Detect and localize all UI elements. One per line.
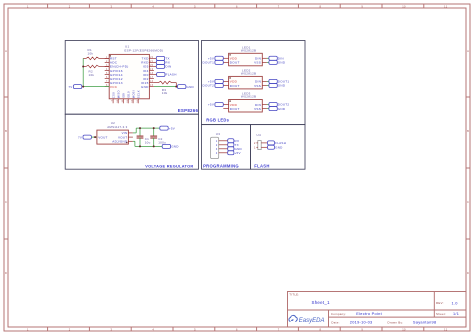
junction C2 bottom	[153, 145, 155, 147]
LED3 pin DIN	[255, 103, 267, 107]
svg-text:DIN: DIN	[255, 103, 261, 107]
svg-text:GND: GND	[278, 61, 286, 65]
svg-text:+5V: +5V	[208, 103, 214, 107]
resistor R1	[83, 57, 109, 60]
svg-text:VDD: VDD	[230, 103, 238, 107]
svg-text:21: 21	[150, 61, 154, 63]
section box FLASH	[251, 125, 306, 170]
title block label Sheet:	[436, 312, 446, 316]
svg-text:U1: U1	[125, 44, 129, 48]
svg-text:4: 4	[152, 4, 154, 8]
svg-text:100u: 100u	[158, 140, 166, 144]
section label PROGRAMMING	[203, 164, 239, 169]
svg-text:IO2: IO2	[143, 77, 149, 81]
svg-text:5: 5	[194, 4, 196, 8]
svg-text:10k: 10k	[162, 91, 168, 95]
net flag GND (header)	[268, 145, 284, 149]
svg-text:RXD: RXD	[141, 61, 149, 65]
svg-text:DIN: DIN	[255, 80, 261, 84]
svg-text:7: 7	[278, 327, 280, 331]
svg-text:VOUT: VOUT	[98, 135, 107, 139]
U2 pin VIN	[122, 131, 133, 135]
junction 7V-VOUT	[94, 136, 96, 138]
LED2 pin VSS	[254, 84, 267, 88]
svg-text:IO5: IO5	[143, 65, 149, 69]
net flag +5V (LED1)	[208, 56, 223, 60]
svg-text:1/1: 1/1	[453, 312, 459, 316]
svg-text:WS2812B: WS2812B	[241, 95, 256, 99]
svg-text:U3: U3	[216, 132, 220, 136]
svg-text:DIN: DIN	[255, 57, 261, 61]
svg-text:1: 1	[27, 327, 29, 331]
EasyEDA logo	[289, 315, 325, 324]
svg-text:REV:: REV:	[436, 301, 444, 305]
svg-text:11: 11	[444, 4, 448, 8]
svg-text:IO4: IO4	[143, 69, 149, 73]
U2 anchor dot	[126, 142, 127, 143]
section label VOLTAGE REGULATOR	[145, 164, 193, 169]
svg-text:IO10: IO10	[126, 91, 130, 98]
net flag 7V (ESP)	[68, 85, 81, 89]
title block value Electro Point	[356, 311, 382, 316]
net flag FLASH (header)	[268, 141, 287, 145]
LED3 anchor dot	[229, 100, 230, 101]
led LED3 body WS2812B	[229, 100, 263, 113]
svg-text:6: 6	[236, 4, 238, 8]
label C2	[158, 137, 162, 141]
net flag DIN (LED1 in)	[267, 56, 284, 60]
svg-text:A: A	[467, 49, 469, 53]
U4 pin 2	[254, 142, 268, 145]
net flag TX (programming)	[228, 143, 239, 147]
label C1	[145, 137, 149, 141]
label R2 value 10k	[89, 73, 95, 77]
svg-text:DOUT: DOUT	[230, 107, 240, 111]
resistor R3	[154, 81, 176, 86]
svg-text:Company:: Company:	[331, 312, 346, 316]
svg-text:VOUT: VOUT	[118, 135, 127, 139]
svg-text:C: C	[5, 200, 7, 204]
svg-text:Drawn By:: Drawn By:	[388, 320, 404, 324]
svg-text:+5V: +5V	[169, 126, 175, 130]
label R2	[89, 70, 93, 74]
U1 bottom pins CS0/MISO/IO9/IO10/MOSI/SCLK	[111, 90, 140, 103]
LED2 pin DOUT	[223, 84, 239, 88]
svg-text:ESP8266: ESP8266	[178, 108, 199, 113]
svg-text:10u: 10u	[145, 140, 151, 144]
net flag TX	[154, 56, 170, 60]
section label RGB LEDs	[206, 118, 229, 123]
net flag 7V (regulator)	[78, 135, 97, 139]
svg-text:U4: U4	[257, 133, 261, 137]
net flag +5V (LED3)	[208, 103, 223, 107]
net flag RX	[154, 60, 170, 64]
junction 7V rail	[82, 86, 84, 88]
net flag DOUT2 (LED3 in)	[267, 103, 290, 107]
svg-text:2019-10-03: 2019-10-03	[350, 320, 373, 325]
svg-text:GND: GND	[235, 147, 243, 151]
LED1 anchor dot	[229, 54, 230, 55]
svg-text:FLASH: FLASH	[254, 164, 269, 169]
title block label Date:	[331, 320, 339, 324]
net flag GND (LED3)	[267, 107, 286, 111]
svg-text:DOUT: DOUT	[230, 84, 240, 88]
svg-text:IO15: IO15	[141, 81, 149, 85]
net flag GND (regulator)	[162, 144, 179, 148]
svg-text:TXD: TXD	[142, 57, 150, 61]
svg-text:MOSI: MOSI	[131, 90, 135, 98]
svg-text:TITLE:: TITLE:	[289, 292, 299, 296]
title block value Sheet_1	[312, 300, 331, 305]
title block label Drawn By:	[388, 320, 404, 324]
svg-text:Date:: Date:	[331, 320, 339, 324]
wire 7V to VCC	[82, 86, 109, 88]
net flag GND (ESP)	[178, 85, 195, 89]
label R3 value 10k	[162, 91, 168, 95]
svg-text:17: 17	[150, 77, 154, 79]
title block label REV:	[436, 301, 444, 305]
svg-text:2: 2	[69, 4, 71, 8]
wire VIN to +5V rail	[133, 128, 160, 133]
svg-text:+5V: +5V	[208, 57, 214, 61]
svg-text:GND: GND	[171, 145, 179, 149]
svg-text:VDD: VDD	[230, 80, 238, 84]
svg-text:CS0: CS0	[111, 92, 115, 98]
svg-text:GPIO14: GPIO14	[110, 73, 123, 77]
LED3 pin VDD	[223, 103, 237, 107]
svg-text:IO9: IO9	[122, 93, 126, 98]
svg-text:ADC: ADC	[110, 61, 118, 65]
U1 right pins TXD/RXD/IO/GND	[141, 57, 154, 89]
label U1	[125, 44, 129, 48]
svg-text:DIN: DIN	[278, 57, 284, 61]
U1 left pins RST/ADC/EN/GPIO	[105, 57, 129, 89]
svg-text:WS2812B: WS2812B	[241, 72, 256, 76]
svg-text:GND: GND	[278, 107, 286, 111]
label R1	[88, 48, 92, 52]
svg-text:GND: GND	[187, 85, 195, 89]
svg-text:6: 6	[236, 327, 238, 331]
svg-text:RX: RX	[235, 139, 240, 143]
svg-text:TX: TX	[165, 57, 169, 61]
LED1 pin DIN	[255, 57, 267, 61]
svg-text:19: 19	[150, 69, 154, 71]
svg-text:EN(CH-PD): EN(CH-PD)	[110, 65, 129, 69]
U2 pin VOUT right	[118, 135, 133, 139]
capacitor C1	[137, 128, 144, 146]
title block label Company:	[331, 312, 346, 316]
svg-text:RST: RST	[110, 57, 117, 61]
svg-text:+5V: +5V	[208, 80, 214, 84]
svg-text:SCLK: SCLK	[136, 90, 140, 98]
led LED2 body WS2812B	[229, 76, 263, 89]
net flag DOUT1 (LED2 in)	[267, 79, 290, 83]
net flag GND (LED1)	[267, 60, 286, 64]
title block value 1/1	[453, 312, 459, 316]
svg-text:20: 20	[150, 65, 154, 67]
svg-text:B: B	[467, 129, 469, 133]
section box RGB LEDs	[202, 41, 306, 125]
LED2 pin DIN	[255, 80, 267, 84]
svg-text:DOUT1: DOUT1	[203, 61, 215, 65]
svg-text:1: 1	[27, 4, 29, 8]
U3 pins 1-4	[216, 140, 228, 155]
svg-text:7: 7	[278, 4, 280, 8]
svg-text:18: 18	[150, 73, 154, 75]
resistor R2	[83, 65, 109, 68]
regulator U2 body AMS1117-3.3	[97, 130, 128, 144]
svg-text:VCC: VCC	[110, 85, 118, 89]
svg-text:1.0: 1.0	[452, 300, 459, 305]
svg-text:4: 4	[152, 327, 154, 331]
net flag DIN	[154, 64, 172, 68]
svg-text:GND: GND	[278, 84, 286, 88]
wire GND to flag	[154, 86, 178, 88]
svg-text:7V: 7V	[68, 85, 72, 89]
svg-text:+5V: +5V	[235, 151, 241, 155]
svg-text:VIN: VIN	[122, 131, 128, 135]
svg-text:D: D	[5, 271, 7, 275]
svg-text:A: A	[5, 49, 7, 53]
svg-text:FLASH: FLASH	[166, 73, 177, 77]
net flag GND (programming)	[228, 147, 243, 151]
net flag +5V (programming)	[228, 151, 241, 155]
svg-text:VSS: VSS	[254, 84, 261, 88]
label R3	[162, 88, 166, 92]
svg-text:IO0: IO0	[143, 73, 149, 77]
svg-text:PROGRAMMING: PROGRAMMING	[203, 164, 239, 169]
net flag GND (LED2)	[267, 84, 286, 88]
svg-text:C: C	[467, 200, 469, 204]
wire vertical 7V rail	[82, 58, 84, 86]
label U3	[216, 132, 220, 136]
svg-text:GPIO16: GPIO16	[110, 69, 123, 73]
label LED1	[242, 45, 251, 49]
label R1 value 10k	[88, 52, 94, 56]
LED1 pin DOUT	[223, 61, 239, 65]
svg-text:DOUT2: DOUT2	[203, 84, 215, 88]
svg-text:GPIO13: GPIO13	[110, 81, 123, 85]
LED2 pin VDD	[223, 80, 237, 84]
svg-text:3: 3	[111, 4, 113, 8]
svg-text:VDD: VDD	[230, 57, 238, 61]
label LED2 value WS2812B	[241, 72, 256, 76]
junction R3-GND	[175, 86, 177, 88]
section label FLASH	[254, 164, 269, 169]
svg-text:DIN: DIN	[165, 65, 171, 69]
svg-text:16: 16	[150, 81, 154, 83]
section box ESP8266	[65, 41, 198, 115]
svg-text:EasyEDA: EasyEDA	[299, 318, 325, 324]
LED1 pin VSS	[254, 61, 267, 65]
svg-text:GND: GND	[141, 85, 149, 89]
svg-text:WS2812B: WS2812B	[241, 49, 256, 53]
label LED3	[242, 92, 251, 96]
label LED3 value WS2812B	[241, 95, 256, 99]
svg-text:VSS: VSS	[254, 107, 261, 111]
label U2 value AMS1117-3.3	[107, 125, 127, 129]
svg-text:RGB LEDs: RGB LEDs	[206, 118, 229, 123]
svg-text:15: 15	[150, 85, 154, 87]
svg-text:10k: 10k	[88, 52, 94, 56]
op U1 body ESP-12F	[109, 54, 149, 98]
svg-text:B: B	[5, 129, 7, 133]
title block value 1.0	[452, 300, 459, 305]
wire ADJ/GND to GND rail	[133, 141, 162, 146]
svg-text:10: 10	[402, 327, 406, 331]
LED1 pin VDD	[223, 57, 237, 61]
svg-text:Sheet:: Sheet:	[436, 312, 446, 316]
net flag DOUT1 (LED1 out)	[203, 60, 224, 64]
svg-text:5: 5	[194, 327, 196, 331]
label U4	[257, 133, 261, 137]
U2 pin VOUT left	[93, 135, 107, 139]
svg-text:7V: 7V	[78, 135, 82, 139]
svg-text:MISO: MISO	[116, 90, 120, 98]
junction C2 top	[153, 127, 155, 129]
svg-text:10: 10	[402, 4, 406, 8]
svg-text:10k: 10k	[89, 73, 95, 77]
net flag DOUT2 (LED2 out)	[203, 84, 224, 88]
svg-text:ESP-12F(ESP8266MOD): ESP-12F(ESP8266MOD)	[124, 48, 163, 52]
section box VOLTAGE REGULATOR	[65, 114, 198, 169]
connector U3 body	[211, 137, 219, 158]
label U2	[111, 121, 115, 125]
svg-text:Electro Point: Electro Point	[356, 311, 382, 316]
svg-text:D: D	[467, 271, 469, 275]
svg-text:AMS1117-3.3: AMS1117-3.3	[107, 125, 127, 129]
label LED1 value WS2812B	[241, 49, 256, 53]
svg-text:U2: U2	[111, 121, 115, 125]
svg-text:GPIO12: GPIO12	[110, 77, 123, 81]
svg-text:9: 9	[361, 4, 363, 8]
svg-text:Sheet_1: Sheet_1	[312, 300, 331, 305]
net flag +5V (LED2)	[208, 79, 223, 83]
capacitor C2	[150, 128, 157, 146]
section label ESP8266	[178, 108, 199, 113]
label LED2	[242, 69, 251, 73]
U4 pin 1	[254, 146, 268, 149]
title block value 2019-10-03	[350, 320, 373, 325]
svg-text:VOLTAGE REGULATOR: VOLTAGE REGULATOR	[145, 164, 193, 169]
net flag FLASH (ESP)	[154, 73, 177, 77]
svg-text:11: 11	[444, 327, 448, 331]
net flag +5V (regulator)	[160, 126, 175, 130]
svg-text:Sayantan98: Sayantan98	[413, 320, 437, 325]
svg-text:DOUT2: DOUT2	[278, 103, 290, 107]
LED2 anchor dot	[229, 77, 230, 78]
svg-text:22: 22	[150, 57, 154, 59]
LED3 pin DOUT	[223, 107, 239, 111]
title block label TITLE:	[289, 292, 299, 296]
U2 pin ADJ/GND	[112, 140, 133, 144]
U1 anchor dot	[110, 55, 111, 56]
section box PROGRAMMING	[202, 125, 251, 170]
svg-text:8: 8	[320, 327, 322, 331]
svg-text:9: 9	[361, 327, 363, 331]
svg-text:8: 8	[320, 4, 322, 8]
title block value Sayantan98	[413, 320, 437, 325]
junction C1 top	[139, 127, 141, 129]
svg-text:RX: RX	[165, 61, 170, 65]
label C1 value 10u	[145, 140, 151, 144]
net flag RX (programming)	[228, 139, 240, 143]
svg-text:DOUT1: DOUT1	[278, 80, 290, 84]
svg-text:VSS: VSS	[254, 61, 261, 65]
connector U4 body	[258, 141, 261, 150]
label C2 value 100u	[158, 140, 166, 144]
LED3 pin VSS	[254, 107, 267, 111]
svg-text:TX: TX	[235, 143, 239, 147]
svg-text:DOUT: DOUT	[230, 61, 240, 65]
svg-text:3: 3	[111, 327, 113, 331]
led LED1 body WS2812B	[229, 53, 263, 66]
svg-text:GND: GND	[275, 146, 283, 150]
title block frame	[288, 292, 467, 328]
svg-text:2: 2	[69, 327, 71, 331]
junction R2 tap	[82, 66, 84, 68]
svg-text:ADJ/GND: ADJ/GND	[112, 140, 128, 144]
label U1 value ESP-12F(ESP8266MOD)	[124, 48, 163, 52]
svg-text:FLASH: FLASH	[275, 141, 286, 145]
junction C1 bottom	[139, 145, 141, 147]
